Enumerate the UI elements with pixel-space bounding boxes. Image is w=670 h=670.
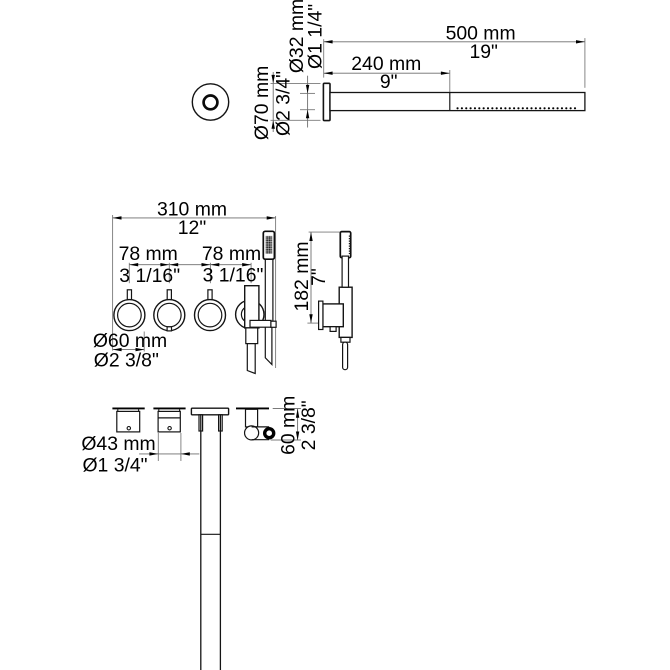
label 78 mm second bbox=[202, 243, 261, 265]
bottom view holder body bbox=[246, 409, 258, 427]
svg-text:19": 19" bbox=[469, 41, 498, 63]
dimension line diameter 43 bbox=[139, 452, 199, 455]
side view valve body bbox=[323, 304, 343, 327]
extension lines for diameter 32 bbox=[300, 93, 315, 109]
dimension line 240 mm bbox=[324, 72, 450, 75]
extension line left of 500mm dim bbox=[323, 39, 325, 77]
label 182 mm (rotated) bbox=[291, 241, 313, 311]
extension lines 60 mm bbox=[271, 409, 301, 441]
bottom view knob 1 neck bbox=[118, 409, 139, 411]
svg-text:Ø1 3/4": Ø1 3/4" bbox=[82, 454, 147, 476]
bottom view spout tube bbox=[201, 415, 221, 670]
svg-text:2 3/8": 2 3/8" bbox=[298, 400, 320, 450]
side view head nozzle hatch bbox=[349, 236, 351, 255]
bottom view knob 2 screw bbox=[168, 427, 171, 430]
bottom view spout flange bbox=[191, 408, 228, 415]
holder arm nub bbox=[271, 321, 276, 327]
svg-text:Ø2 3/4": Ø2 3/4" bbox=[272, 71, 294, 136]
knob 3 stem bbox=[208, 290, 212, 302]
svg-text:Ø70 mm: Ø70 mm bbox=[251, 66, 273, 140]
label 19 inch bbox=[469, 41, 498, 63]
knob 1 outer circle bbox=[114, 300, 145, 331]
extension lines for diameter 70 bbox=[271, 83, 321, 120]
dimension line 182 mm bbox=[309, 232, 312, 323]
side view hose adapter bbox=[341, 337, 350, 342]
extension lines diameter 43 bbox=[158, 433, 181, 461]
knob 1 inner circle bbox=[118, 303, 142, 327]
bottom view knob 2 split line bbox=[158, 417, 180, 419]
extension line left of 310mm dim bbox=[112, 215, 114, 351]
bottom view knob 1 screw bbox=[127, 427, 130, 430]
label 60 mm (rotated) bbox=[277, 396, 299, 455]
spout tube joint line bbox=[201, 533, 221, 535]
holder body bbox=[245, 286, 259, 328]
ceiling flange front view outer circle bbox=[192, 84, 228, 120]
label 12 inch bbox=[178, 217, 207, 239]
knob 2 outer circle bbox=[154, 300, 185, 331]
bottom view hand shower wall plate bbox=[236, 407, 269, 409]
label diameter 2 3/4 inch (rotated) bbox=[272, 71, 294, 136]
extension line at 240mm end and arm divider bbox=[449, 70, 451, 93]
holder ring inner bbox=[241, 306, 258, 323]
label 3 1/16 inch first bbox=[119, 265, 180, 287]
bottom view holder circle bbox=[245, 426, 259, 440]
bottom view knob 2 body bbox=[158, 411, 180, 432]
side view nub below body bbox=[330, 327, 336, 332]
hand shower handle front bbox=[265, 259, 273, 321]
svg-text:78 mm: 78 mm bbox=[202, 243, 261, 265]
extension line right of 500mm dim bbox=[584, 38, 586, 88]
label 240 mm bbox=[351, 53, 421, 75]
svg-text:7": 7" bbox=[308, 268, 330, 286]
label diameter 60 mm bbox=[93, 330, 167, 352]
extension line right of 310mm dim bbox=[275, 216, 277, 368]
spray nozzle grid bbox=[266, 236, 273, 254]
extension lines 182 mm bbox=[307, 232, 341, 323]
label diameter 2 3/8 inch bbox=[94, 349, 159, 371]
knob 2 bottom tab bbox=[167, 327, 171, 331]
dimension line diameter 32 bbox=[306, 76, 309, 128]
dimension line diameter 70 bbox=[272, 72, 275, 132]
svg-text:Ø1 1/4": Ø1 1/4" bbox=[304, 4, 326, 69]
svg-text:60 mm: 60 mm bbox=[277, 396, 299, 455]
svg-text:12": 12" bbox=[178, 217, 207, 239]
bottom view knob 1 body bbox=[117, 411, 140, 432]
knob 2 stem bbox=[167, 290, 171, 302]
side view handle bbox=[342, 256, 348, 287]
label 9 inch bbox=[380, 71, 398, 93]
holder ring outer bbox=[236, 300, 264, 328]
knob 1 stem bbox=[127, 290, 131, 302]
bottom view spout mounting tabs bbox=[199, 415, 222, 431]
bottom view cylinder lines bbox=[252, 427, 270, 440]
bottom view knob 1 wall plate bbox=[112, 407, 144, 409]
label diameter 70 mm (rotated) bbox=[251, 66, 273, 140]
hand shower wand lower front bbox=[265, 322, 272, 365]
wall flange of shower arm side view bbox=[323, 83, 330, 120]
holder step block bbox=[246, 328, 258, 344]
label diameter 1 3/4 inch bbox=[82, 454, 147, 476]
knob 2 inner circle bbox=[158, 303, 182, 327]
label 310 mm bbox=[157, 199, 227, 221]
svg-text:Ø2 3/8": Ø2 3/8" bbox=[94, 349, 159, 371]
spray nozzle dots on arm bbox=[458, 107, 580, 109]
side view wall plate bbox=[319, 301, 323, 329]
label diameter 43 mm bbox=[81, 433, 155, 455]
dimension line 78 mm chain bbox=[129, 263, 251, 266]
dimension line 310 mm bbox=[113, 216, 276, 219]
side view holder bar bbox=[339, 287, 352, 337]
svg-text:3 1/16": 3 1/16" bbox=[119, 265, 180, 287]
label 500 mm bbox=[446, 22, 516, 44]
label 2 3/8 inch (rotated) bbox=[298, 400, 320, 450]
svg-text:78 mm: 78 mm bbox=[119, 243, 178, 265]
bottom view knob 2 wall plate bbox=[153, 407, 185, 409]
svg-text:3 1/16": 3 1/16" bbox=[203, 264, 264, 286]
holder arm bbox=[250, 320, 271, 327]
arm divider joint line bbox=[449, 93, 451, 110]
diameter 60 dimension line bbox=[113, 332, 145, 352]
ceiling flange front view inner ring bbox=[204, 96, 218, 110]
bottom view knob 2 neck bbox=[159, 409, 180, 411]
dimension line 60 mm bbox=[296, 409, 299, 441]
knob 3 inner circle bbox=[198, 303, 222, 327]
label 78 mm first bbox=[119, 243, 178, 265]
shower arm horizontal bar bbox=[330, 93, 585, 111]
svg-text:9": 9" bbox=[380, 71, 398, 93]
holder spout bbox=[247, 344, 255, 374]
svg-text:Ø43 mm: Ø43 mm bbox=[81, 433, 155, 455]
side view hand shower head bbox=[340, 232, 350, 258]
dimension line 500 mm bbox=[324, 40, 585, 43]
label 7 inch (rotated) bbox=[308, 268, 330, 286]
label diameter 1 1/4 inch (rotated) bbox=[304, 4, 326, 69]
knob 3 outer circle bbox=[195, 300, 226, 331]
label diameter 32 mm (rotated) bbox=[286, 0, 308, 73]
hand shower head front bbox=[263, 231, 274, 259]
label 3 1/16 inch second bbox=[203, 264, 264, 286]
bottom view hand shower head ring bbox=[265, 429, 274, 438]
side view hose bbox=[343, 342, 348, 370]
extension lines for 78mm dims bbox=[129, 263, 251, 283]
